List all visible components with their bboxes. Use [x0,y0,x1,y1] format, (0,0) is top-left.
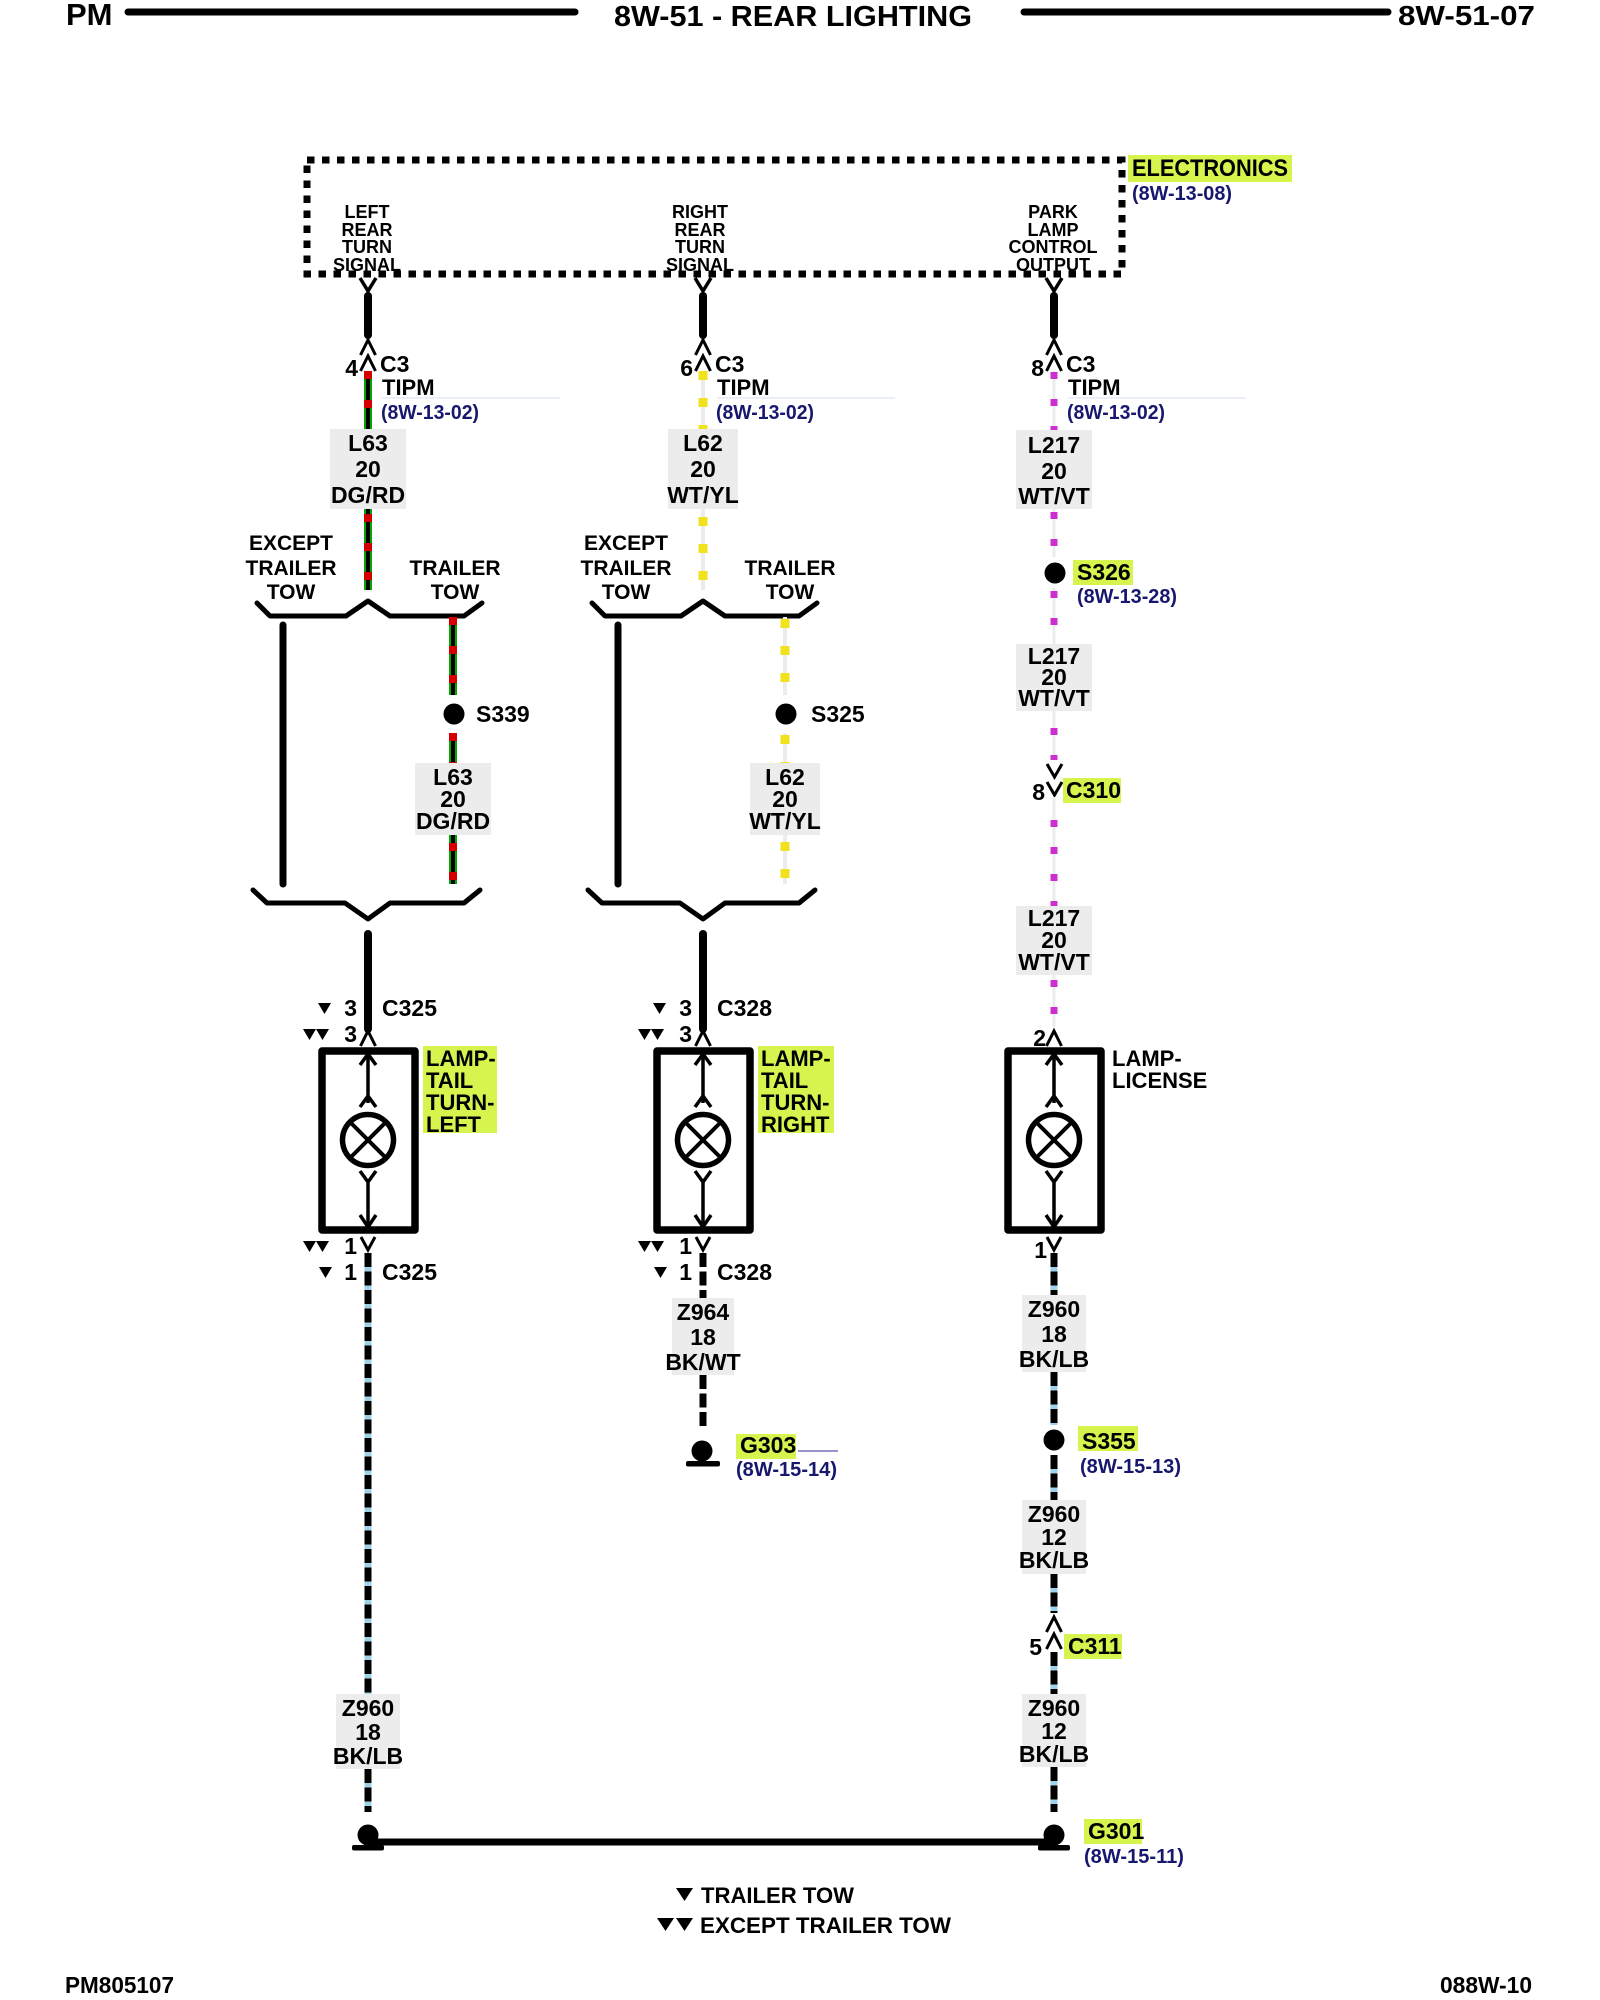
connector C325 pin 3 [303,995,437,1047]
svg-text:(8W-13-02): (8W-13-02) [381,402,479,424]
label LAMP-TAIL TURN-LEFT [423,1046,497,1137]
svg-text:C325: C325 [382,1259,437,1285]
wire Z960 18 BK/LB (right, upper) [1051,1253,1058,1295]
wire Z960 to S355 [1051,1372,1058,1425]
label C311 [1064,1633,1122,1659]
connector C310 pin 8 [1032,764,1062,805]
svg-text:DG/RD: DG/RD [416,808,490,834]
svg-text:CONTROL: CONTROL [1009,237,1098,257]
svg-text:TOW: TOW [766,581,815,604]
svg-text:L63: L63 [348,430,388,456]
svg-text:Z964: Z964 [677,1299,730,1325]
splice S355 [1044,1430,1065,1451]
wire L217 segment 4 [1053,711,1056,760]
svg-text:EXCEPT TRAILER TOW: EXCEPT TRAILER TOW [700,1913,951,1938]
svg-text:WT/VT: WT/VT [1018,483,1090,509]
svg-text:OUTPUT: OUTPUT [1016,255,1090,275]
svg-text:S339: S339 [476,701,530,727]
label TRAILER TOW (left) [410,557,501,604]
svg-text:WT/YL: WT/YL [667,482,739,508]
svg-text:1: 1 [344,1259,357,1285]
wire right rear turn signal output stub [695,278,711,335]
wire L217 segment 6 [1053,975,1056,1027]
svg-text:S355: S355 [1082,1428,1136,1454]
svg-text:C3: C3 [380,351,409,377]
wire except trailer tow branch (middle) [615,625,622,884]
svg-text:G301: G301 [1088,1818,1144,1844]
node LEFT REAR TURN SIGNAL [333,202,401,275]
label L217 20 WT/VT (third) [1016,905,1092,975]
svg-text:DG/RD: DG/RD [331,482,405,508]
svg-text:LICENSE: LICENSE [1112,1068,1207,1093]
label EXCEPT TRAILER TOW (left) [246,532,337,604]
svg-text:TIPM: TIPM [382,375,435,400]
ground bus wire [368,1839,1054,1846]
svg-text:RIGHT: RIGHT [672,202,728,222]
svg-text:C328: C328 [717,1259,772,1285]
wire Z960 to C311 [1051,1574,1058,1613]
label LAMP-TAIL TURN-RIGHT [758,1046,834,1137]
svg-text:TOW: TOW [431,581,480,604]
ground terminal right [1038,1825,1070,1851]
svg-text:8: 8 [1031,355,1044,381]
svg-text:WT/YL: WT/YL [749,808,821,834]
svg-text:8W-51 - REAR LIGHTING: 8W-51 - REAR LIGHTING [614,1,972,33]
svg-text:TURN: TURN [675,237,725,257]
wire Z960 12 BK/LB below S355 [1051,1455,1058,1500]
svg-text:TRAILER: TRAILER [410,557,501,580]
connector C311 pin 5 [1029,1617,1061,1660]
svg-text:Z960: Z960 [1028,1296,1080,1322]
svg-text:(8W-13-28): (8W-13-28) [1077,586,1177,608]
svg-text:RIGHT: RIGHT [761,1112,830,1137]
svg-text:18: 18 [690,1324,716,1350]
svg-text:2: 2 [1033,1025,1046,1051]
page header PM [66,0,575,32]
svg-text:TRAILER: TRAILER [745,557,836,580]
svg-text:BK/LB: BK/LB [1019,1346,1089,1372]
svg-text:Z960: Z960 [342,1695,394,1721]
wire Z964 18 BK/WT upper [700,1253,707,1298]
wire except trailer tow branch (left) [280,625,287,884]
label L62 20 WT/YL (trailer tow) [749,763,821,835]
label Z960 12 BK/LB (lower) [1019,1694,1089,1767]
wire L63 20 DG/RD lower segment [364,509,372,590]
svg-text:PM805107: PM805107 [65,1972,174,1998]
lamp LAMP-TAIL TURN-LEFT [322,1051,415,1230]
svg-text:5: 5 [1029,1634,1042,1660]
svg-text:TOW: TOW [602,581,651,604]
connector C328 pin 3 [638,995,772,1047]
svg-text:(8W-13-02): (8W-13-02) [1067,402,1165,424]
label Z960 12 BK/LB (upper) [1019,1500,1089,1574]
svg-text:6: 6 [680,355,693,381]
svg-text:WT/VT: WT/VT [1018,949,1090,975]
svg-text:TRAILER: TRAILER [246,557,337,580]
svg-text:(8W-13-02): (8W-13-02) [716,402,814,424]
svg-text:18: 18 [1041,1321,1067,1347]
wire L63 trailer tow branch upper [449,617,457,695]
svg-text:1: 1 [1034,1237,1047,1263]
svg-text:S326: S326 [1077,559,1131,585]
wire Z960 to ground (right) [1051,1767,1058,1812]
label Z960 18 BK/LB (right) [1019,1295,1089,1372]
svg-text:PM: PM [66,0,113,32]
svg-text:C311: C311 [1068,1633,1122,1659]
connector pin 2 of license lamp [1033,1025,1061,1051]
label S355 [1078,1426,1138,1454]
svg-text:20: 20 [355,456,381,482]
module ELECTRONICS dotted box [307,160,1122,274]
wire merged to C325 [364,934,372,1029]
svg-text:8: 8 [1032,779,1045,805]
label L62 20 WT/YL [667,429,739,509]
svg-text:LEFT: LEFT [426,1112,482,1137]
label L63 20 DG/RD (trailer tow) [415,763,491,835]
connector C3 pin 8 (TIPM) [1031,340,1246,424]
page footer [65,1972,1532,1998]
wire left rear turn signal output stub [360,278,376,335]
svg-text:SIGNAL: SIGNAL [666,255,734,275]
svg-text:3: 3 [679,995,692,1021]
svg-text:G303: G303 [740,1432,796,1458]
wire L217 segment 5 [1053,797,1056,906]
wire Z960 18 BK/LB (left, upper) [365,1253,372,1694]
svg-text:TURN: TURN [342,237,392,257]
wire L63 below splice [449,733,457,763]
wire L217 segment 3 [1053,588,1056,644]
page title 8W-51 - REAR LIGHTING [614,0,1535,33]
svg-text:1: 1 [344,1233,357,1259]
label L217 20 WT/VT (first) [1016,430,1092,509]
svg-text:3: 3 [344,1021,357,1047]
svg-text:SIGNAL: SIGNAL [333,255,401,275]
svg-text:20: 20 [1041,458,1067,484]
lamp LAMP-LICENSE [1008,1051,1101,1230]
connector pin 1 of license lamp [1034,1237,1061,1263]
wire Z960 to ground (left) [365,1769,372,1812]
svg-text:LEFT: LEFT [345,202,390,222]
label G301 [1084,1818,1144,1844]
wire L63 trailer tow branch lower [449,835,457,884]
svg-text:1: 1 [679,1259,692,1285]
wire L62 20 WT/YL upper segment [701,371,705,429]
svg-text:TIPM: TIPM [717,375,770,400]
svg-text:EXCEPT: EXCEPT [249,532,333,555]
svg-text:TIPM: TIPM [1068,375,1121,400]
svg-text:(8W-13-08): (8W-13-08) [1132,183,1232,205]
wire park lamp control output stub [1046,278,1062,335]
brace merge (left) [253,890,480,919]
label EXCEPT TRAILER TOW (middle) [581,532,672,604]
label L217 20 WT/VT (second) [1016,643,1092,711]
svg-text:BK/LB: BK/LB [1019,1547,1089,1573]
svg-text:C310: C310 [1066,777,1121,803]
legend EXCEPT TRAILER TOW [657,1913,951,1938]
svg-text:TRAILER TOW: TRAILER TOW [701,1883,854,1908]
svg-text:S325: S325 [811,701,865,727]
label C310 [1063,777,1121,803]
splice S326 [1045,563,1066,584]
svg-text:C328: C328 [717,995,772,1021]
wire merged to C328 [699,934,707,1029]
svg-text:088W-10: 088W-10 [1440,1972,1532,1998]
svg-text:L62: L62 [683,430,723,456]
label Z960 18 BK/LB (left) [333,1694,403,1769]
svg-text:PARK: PARK [1028,202,1078,222]
svg-text:BK/WT: BK/WT [665,1349,740,1375]
svg-text:(8W-15-13): (8W-15-13) [1080,1456,1181,1478]
svg-text:EXCEPT: EXCEPT [584,532,668,555]
wire L62 trailer tow branch lower [783,835,787,884]
splice S325 [776,701,865,727]
svg-text:1: 1 [679,1233,692,1259]
splice S339 [444,701,530,727]
wire L62 trailer tow branch upper [783,617,787,695]
svg-text:C3: C3 [715,351,744,377]
label S326 [1073,559,1133,585]
label G303 [736,1432,838,1459]
connector C3 pin 4 (TIPM) [345,340,560,424]
wire Z960 below C311 [1051,1652,1058,1694]
svg-text:C3: C3 [1066,351,1095,377]
svg-text:(8W-15-14): (8W-15-14) [736,1459,837,1481]
wire L217 segment 2 [1053,509,1056,557]
svg-text:WT/VT: WT/VT [1018,685,1090,711]
wire Z964 to ground [700,1375,707,1428]
svg-text:C325: C325 [382,995,437,1021]
svg-text:ELECTRONICS: ELECTRONICS [1132,155,1288,182]
svg-text:L217: L217 [1028,432,1080,458]
ground G303 terminal [686,1441,720,1467]
svg-text:TRAILER: TRAILER [581,557,672,580]
label ELECTRONICS [1128,155,1292,182]
svg-text:TOW: TOW [267,581,316,604]
label L63 20 DG/RD [330,429,406,509]
svg-text:BK/LB: BK/LB [333,1743,403,1769]
brace split (left) [257,601,482,616]
brace merge (middle) [588,890,815,919]
connector C325 pin 1 [303,1233,437,1285]
label Z964 18 BK/WT [665,1298,740,1375]
node RIGHT REAR TURN SIGNAL [666,202,734,275]
svg-text:20: 20 [690,456,716,482]
svg-text:(8W-15-11): (8W-15-11) [1084,1846,1184,1868]
node PARK LAMP CONTROL OUTPUT [1009,202,1098,275]
label TRAILER TOW (middle) [745,557,836,604]
svg-text:3: 3 [344,995,357,1021]
legend TRAILER TOW [676,1883,854,1908]
wire L62 below splice [783,733,787,763]
label LAMP-LICENSE [1112,1046,1207,1093]
svg-text:18: 18 [355,1719,381,1745]
wire L217 20 WT/VT segment 1 [1053,371,1056,430]
wire L63 20 DG/RD upper segment [364,371,372,429]
svg-text:3: 3 [679,1021,692,1047]
svg-text:4: 4 [345,355,358,381]
svg-text:BK/LB: BK/LB [1019,1741,1089,1767]
wire L62 20 WT/YL lower segment [701,509,705,590]
brace split (middle) [592,601,817,616]
svg-text:8W-51-07: 8W-51-07 [1398,0,1535,31]
ground terminal left [352,1825,384,1851]
connector C3 pin 6 (TIPM) [680,340,895,424]
connector C328 pin 1 [638,1233,772,1285]
lamp LAMP-TAIL TURN-RIGHT [657,1051,750,1230]
